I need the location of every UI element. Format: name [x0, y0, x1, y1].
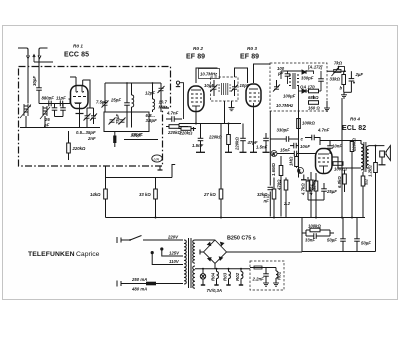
resistor 27kΩ — [203, 178, 223, 218]
wire AVC rail y=177.5 — [106, 177, 173, 179]
fuse wire — [121, 283, 183, 285]
wire transformer to bridge — [195, 240, 302, 269]
heater Rö3 — [223, 269, 231, 285]
diode OA170 bottom — [302, 89, 306, 93]
diode OA170 top — [302, 70, 306, 74]
svg-text:EF 89: EF 89 — [186, 54, 205, 61]
svg-text:5Ω: 5Ω — [364, 179, 369, 185]
mains wire with switch — [121, 236, 183, 241]
wire drop to 27k — [220, 124, 222, 178]
mixer coil — [132, 83, 134, 128]
electrolytic 50µF no1 — [327, 218, 346, 252]
svg-text:33kΩ: 33kΩ — [330, 77, 341, 82]
capacitor 15nF coupling — [277, 148, 316, 157]
resistor 220kΩ feed — [179, 124, 223, 140]
label 100pF — [277, 66, 285, 76]
wire grid line — [39, 103, 70, 105]
heater Rö4 — [211, 269, 219, 285]
svg-text:Rö 2: Rö 2 — [193, 46, 203, 51]
ground under detector — [324, 101, 330, 111]
svg-text:125V: 125V — [169, 251, 180, 256]
svg-text:1.2kΩ: 1.2kΩ — [368, 165, 373, 177]
capacitor 880pF — [42, 96, 55, 107]
svg-text:220V: 220V — [167, 235, 179, 240]
svg-text:TELEFUNKEN: TELEFUNKEN — [28, 251, 75, 258]
heater Rö2 — [235, 269, 243, 285]
svg-text:12pF: 12pF — [145, 91, 155, 96]
pot wiper feedback loop — [338, 66, 346, 72]
svg-text:7.5pF: 7.5pF — [96, 100, 108, 105]
circled K — [271, 151, 277, 157]
svg-text:MHz: MHz — [159, 105, 169, 110]
wire IF mid drop — [224, 101, 226, 124]
cathode cap 25µF — [321, 183, 337, 200]
antenna arrow up — [33, 55, 35, 62]
svg-text:Rö1: Rö1 — [277, 271, 282, 280]
coupling cap 4.7nF — [166, 111, 182, 122]
shield tick at end of FM box bottom — [158, 166, 163, 170]
mains terminals bottom — [117, 281, 121, 287]
resistor 6.8kΩ — [337, 170, 346, 192]
svg-text:330pF: 330pF — [301, 76, 314, 81]
wire bottom rail inside FM box — [20, 127, 100, 129]
wire plate to OT — [332, 157, 361, 168]
svg-text:250 mA: 250 mA — [131, 277, 147, 282]
wire cathode row to bus — [308, 200, 324, 218]
wire small caps row — [55, 116, 64, 118]
label 10.7 MHz — [159, 100, 169, 110]
cap 1.5nF second — [256, 133, 270, 152]
svg-text:33 kΩ: 33 kΩ — [139, 192, 151, 197]
resistor 1.6MΩ — [271, 156, 283, 217]
electrolytic 50µF no2 — [354, 218, 371, 252]
wire tube cathode down — [69, 99, 84, 128]
input coil with tuning arrow — [20, 104, 31, 118]
svg-text:6.8kΩ: 6.8kΩ — [337, 176, 342, 188]
svg-text:Caprice: Caprice — [76, 251, 100, 258]
ratio detector dashed box — [270, 63, 327, 111]
trimmer 0.5..35pF no1 — [84, 108, 91, 128]
resistor 160Ω — [308, 101, 320, 111]
B+ rail left — [179, 123, 241, 125]
pentode EF89 no2 envelope — [246, 84, 261, 107]
FM tuner shield box (dash-dot) — [19, 67, 171, 167]
svg-text:2nF: 2nF — [87, 136, 96, 141]
oscillator coil small — [153, 83, 155, 112]
tube label Rö3 EF89 — [240, 46, 259, 61]
wire top rail of mixer — [105, 82, 161, 84]
wire step up at x=172 — [172, 165, 175, 178]
resistor 14kΩ — [90, 189, 107, 218]
switch dot — [129, 239, 131, 241]
wire detector top row — [281, 71, 321, 111]
resistor 220kΩ vertical mid — [225, 123, 240, 152]
potentiometer 7kΩ — [332, 61, 343, 77]
power transformer HT secondary — [193, 240, 195, 263]
page border — [3, 26, 398, 300]
svg-text:c: c — [301, 137, 304, 142]
svg-text:4.7nF: 4.7nF — [317, 128, 330, 133]
svg-text:1.5nF: 1.5nF — [192, 143, 204, 148]
junction dots heater rail — [202, 268, 242, 270]
coupling cap 4.7nF — [305, 128, 330, 146]
capacitor 30pF in antenna lead — [32, 76, 42, 91]
tube label Rö1 ECC85 — [64, 44, 89, 59]
tube label Rö2 EF89 — [186, 46, 205, 61]
wire IF out to EF89 no2 grid — [235, 68, 248, 83]
cathode resistor 470Ω — [309, 173, 318, 200]
svg-text:nF: nF — [264, 199, 270, 204]
svg-text:10.7MHz: 10.7MHz — [200, 72, 218, 77]
B+ rail to output transformer — [320, 141, 361, 145]
svg-text:470Ω: 470Ω — [309, 184, 314, 196]
svg-text:220kΩ: 220kΩ — [179, 131, 194, 136]
svg-text:30pF: 30pF — [32, 76, 37, 86]
svg-text:2.2: 2.2 — [283, 201, 291, 206]
wire to ground row — [344, 91, 352, 93]
svg-text:75pF: 75pF — [115, 114, 120, 124]
detector input trimmer — [273, 80, 280, 92]
svg-text:480 mA: 480 mA — [131, 287, 147, 292]
resistor 470Ω below rail — [277, 178, 288, 218]
wire heater rail — [195, 268, 250, 270]
svg-text:1MΩ: 1MΩ — [289, 156, 294, 166]
pentode EF89 no1 envelope — [188, 86, 204, 112]
svg-text:33nF: 33nF — [305, 238, 315, 243]
svg-text:25µF: 25µF — [326, 189, 337, 194]
resistor 1.2kΩ on speaker line — [368, 163, 378, 178]
resistor 33kΩ — [330, 71, 346, 92]
svg-text:1.5nF: 1.5nF — [256, 145, 268, 150]
svg-text:50µF: 50µF — [327, 238, 337, 243]
svg-text:L: L — [299, 169, 302, 174]
heater Rö1 in box — [273, 268, 282, 287]
svg-text:3.5pF: 3.5pF — [146, 118, 158, 123]
svg-text:470Ω: 470Ω — [277, 179, 282, 191]
svg-text:0.5...35pF: 0.5...35pF — [76, 130, 96, 135]
grid cap node circle — [176, 81, 184, 119]
wire plate top — [70, 77, 94, 108]
wire right B+ drops — [342, 98, 352, 218]
antenna dipole arm 1 — [18, 48, 30, 59]
bridge rectifier B250 C75 — [204, 240, 227, 264]
svg-text:Rö4: Rö4 — [211, 272, 216, 281]
resistor 220kΩ right — [350, 137, 356, 158]
IF transformer dashed box — [211, 77, 239, 101]
speaker ground — [379, 157, 386, 165]
circled L — [298, 168, 304, 174]
oscillator coil with arrow — [40, 106, 50, 119]
capacitor small below grid line b — [60, 104, 66, 117]
svg-text:Rö 1: Rö 1 — [73, 44, 83, 49]
small cap right — [318, 79, 324, 81]
heater filter dashed box — [250, 261, 284, 290]
ground bar under L — [301, 175, 307, 180]
triode-pentode ECL82 envelope — [316, 149, 333, 174]
fuse 250mA — [131, 277, 156, 292]
wire EF89 no2 plate to detector — [254, 64, 271, 83]
wire filter bottom bus — [302, 251, 376, 253]
wire into box — [250, 267, 276, 269]
resistor 32kΩ — [257, 178, 276, 218]
svg-text:ECL 82: ECL 82 — [342, 125, 366, 132]
wire EF89no1 cathode down — [195, 113, 197, 124]
IF cap right 10pF — [231, 80, 250, 96]
detector primary cap — [285, 74, 291, 76]
wire from arrow to right — [34, 61, 53, 63]
svg-text:B250 C75 s: B250 C75 s — [227, 236, 256, 242]
oval UA marker — [152, 155, 162, 162]
IF coil cores — [218, 83, 231, 95]
capacitor 10nF mid — [327, 141, 342, 155]
junction dots ground bus — [155, 217, 354, 219]
capacitor 10nF — [290, 143, 310, 149]
cap 2.2nF in box — [252, 268, 270, 287]
svg-text:220kΩ: 220kΩ — [208, 135, 223, 140]
svg-text:pF: pF — [277, 71, 284, 76]
power transformer core — [189, 238, 192, 288]
svg-text:880pF: 880pF — [42, 96, 55, 101]
resistor 12kΩ below rail — [309, 172, 316, 218]
svg-text:27 kΩ: 27 kΩ — [203, 192, 216, 197]
resistor 100kΩ beside tube — [333, 162, 348, 172]
svg-text:330pF: 330pF — [277, 128, 290, 133]
oscillator sub-box — [104, 112, 149, 132]
capacitor 11pF — [56, 96, 66, 107]
svg-text:110V: 110V — [169, 259, 180, 264]
wire drop from FM box — [105, 166, 107, 189]
wire audio line from detector — [298, 111, 300, 178]
svg-text:11pF: 11pF — [56, 96, 66, 101]
svg-text:50µF: 50µF — [361, 241, 371, 246]
svg-text:UA: UA — [154, 157, 160, 162]
resistor 1MΩ grid — [289, 154, 299, 168]
svg-text:7kΩ: 7kΩ — [334, 61, 343, 66]
svg-text:7V/0,3A: 7V/0,3A — [207, 288, 223, 293]
trimmer inside sub-box — [109, 118, 126, 125]
wire coil bottoms to rail — [26, 116, 45, 128]
label 26pF — [43, 117, 50, 128]
svg-text:1.6MΩ: 1.6MΩ — [271, 162, 276, 176]
wire antenna coil — [28, 86, 39, 104]
svg-text:100kΩ: 100kΩ — [308, 224, 322, 229]
ground under IF box — [229, 101, 235, 111]
svg-text:Rö 4: Rö 4 — [350, 117, 360, 122]
cap 1.5nF decouple — [192, 123, 205, 152]
EF89 no1 electrodes — [191, 90, 202, 113]
variable cap 12pF — [145, 83, 165, 112]
cap 47pF — [240, 124, 258, 153]
svg-text:Rö3: Rö3 — [223, 272, 228, 281]
svg-text:15nF: 15nF — [280, 148, 290, 153]
electrolytic 2µF — [349, 71, 364, 92]
wire ground bus y=217.5 — [106, 217, 366, 219]
svg-text:220kΩ: 220kΩ — [352, 137, 357, 152]
svg-text:10nF: 10nF — [300, 144, 310, 149]
capacitor 330pF — [270, 128, 298, 142]
cap 33nF — [305, 233, 330, 242]
ECC85 electrodes — [73, 86, 86, 109]
pilot lamp 7V 0.3A — [200, 269, 205, 285]
wire OT secondary to speaker — [369, 145, 385, 252]
svg-text:100kΩ: 100kΩ — [334, 167, 348, 172]
resistor 220k grid — [166, 125, 188, 135]
tube label Rö4 ECL82 — [342, 117, 366, 133]
svg-text:2µF: 2µF — [355, 72, 364, 77]
wire detector out right — [327, 70, 346, 72]
wire EF89 no1 plate up — [196, 68, 217, 83]
tap 125V — [161, 248, 183, 256]
resistor 1kΩ filled mixer — [113, 132, 116, 148]
wire 16pF row — [124, 139, 158, 141]
output transformer windings — [361, 142, 369, 172]
trimmer 7.5pF — [96, 83, 109, 112]
svg-text:[A.172]: [A.172] — [307, 65, 323, 70]
svg-text:10pF: 10pF — [204, 83, 214, 88]
IF cap left 10pF — [204, 80, 218, 96]
svg-text:Rö 3: Rö 3 — [247, 46, 257, 51]
power transformer heater secondary — [193, 266, 195, 288]
mains terminals top — [117, 237, 121, 243]
trimmer 0.5..35pF no2 — [90, 108, 97, 124]
svg-text:14kΩ: 14kΩ — [90, 192, 101, 197]
svg-text:100µF: 100µF — [283, 94, 296, 99]
wire EF89no2 drop — [250, 109, 257, 152]
small resistor in box — [254, 266, 262, 269]
resistor 100kΩ bleeder — [306, 224, 330, 232]
svg-text:2.2nF: 2.2nF — [252, 277, 265, 282]
mixer section: capacitor 25pF — [110, 83, 130, 128]
resistor 685Ω — [308, 89, 319, 100]
svg-text:160 Ω: 160 Ω — [308, 106, 320, 111]
svg-text:pF: pF — [43, 123, 50, 128]
wire bleeder column — [302, 218, 334, 252]
AGC line from detector — [263, 111, 274, 217]
svg-text:100kΩ: 100kΩ — [302, 121, 316, 126]
resistor 1MΩ — [301, 177, 310, 200]
resistor 220kΩ vertical below — [67, 131, 86, 160]
resistor 100kΩ audio — [297, 119, 316, 129]
svg-text:EF 89: EF 89 — [240, 54, 259, 61]
triode ECC85 envelope — [71, 86, 89, 109]
power transformer primary winding — [184, 240, 186, 284]
svg-text:32kΩ: 32kΩ — [257, 192, 268, 197]
resistor under output transformer — [361, 172, 368, 218]
wire antenna feeds into box — [28, 58, 39, 88]
svg-text:25pF: 25pF — [110, 98, 121, 103]
svg-text:125µF: 125µF — [131, 133, 144, 138]
svg-text:220kΩ: 220kΩ — [72, 146, 87, 151]
svg-text:4.7kΩ: 4.7kΩ — [301, 183, 306, 196]
resistor 33kΩ — [139, 178, 157, 218]
svg-text:Rö2: Rö2 — [235, 272, 240, 281]
svg-text:ECC 85: ECC 85 — [64, 52, 89, 59]
detector transformer core — [289, 73, 299, 89]
ground volume — [340, 86, 348, 99]
antenna dipole arm 2 — [38, 48, 48, 59]
svg-text:220kΩ: 220kΩ — [235, 136, 240, 151]
label 6.8-3.5pF — [146, 113, 158, 123]
svg-text:10nF: 10nF — [332, 144, 342, 149]
loudspeaker — [380, 146, 391, 161]
EF89 no2 electrodes — [249, 89, 260, 109]
svg-text:10.7MHz: 10.7MHz — [276, 103, 294, 108]
boxed label 10.7MHz — [199, 69, 220, 79]
ECL82 electrodes — [318, 154, 329, 173]
capacitor small below grid line a — [52, 104, 58, 117]
svg-text:b: b — [340, 86, 343, 91]
svg-text:4.7nF: 4.7nF — [166, 111, 179, 116]
tap 110V — [151, 252, 183, 265]
